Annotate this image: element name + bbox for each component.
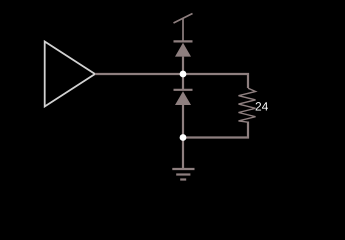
node A (junction dot) <box>180 71 187 78</box>
wire: node A to resistor top corner <box>183 74 248 88</box>
resistor value 24 <box>256 102 268 110</box>
diode D1 (upper, cathode up) <box>174 41 193 74</box>
ground <box>172 169 194 180</box>
wire: node B to ground <box>182 138 184 170</box>
op-amp U1 (buffer triangle) <box>45 42 95 107</box>
diode D2 (lower, cathode up) <box>174 74 193 138</box>
resistor R1 zigzag <box>239 88 256 122</box>
node B (junction dot) <box>180 134 187 141</box>
wire: resistor bottom to node B <box>183 122 248 138</box>
wire: buffer output to node A <box>95 73 183 75</box>
power connection (rail tick) <box>174 14 193 42</box>
